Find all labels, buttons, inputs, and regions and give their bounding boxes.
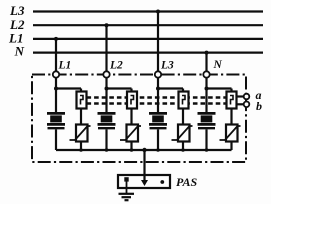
wire to earth bbox=[126, 181, 128, 194]
svg-text:L3: L3 bbox=[160, 59, 174, 71]
wire earth tap bbox=[143, 150, 145, 181]
disconnector box branch 4 bbox=[227, 92, 237, 109]
varistor RU1 (branch 1) bbox=[70, 125, 91, 142]
wire drop L2 bbox=[105, 25, 107, 74]
junction on L1 line bbox=[54, 37, 58, 41]
junction on L3 line bbox=[156, 10, 160, 14]
label PAS bbox=[176, 175, 197, 189]
wire drop L1 bbox=[55, 39, 57, 75]
node L3 terminal circle bbox=[155, 71, 161, 77]
wire drop L3 bbox=[157, 12, 159, 75]
spark gap F1 (branch 1) bbox=[47, 113, 65, 128]
node L1 terminal circle bbox=[53, 71, 59, 77]
wire line N bbox=[33, 51, 263, 53]
disconnector box branch 2 bbox=[127, 92, 137, 109]
spark gap F2 (branch 2) bbox=[98, 113, 116, 128]
ground symbol bbox=[119, 194, 135, 200]
varistor RU2 (branch 2) bbox=[120, 125, 141, 142]
junction dots on bottom bus bbox=[79, 148, 208, 152]
label node L2 bbox=[109, 59, 123, 71]
wire drop N bbox=[205, 53, 207, 75]
svg-text:L3: L3 bbox=[9, 3, 25, 18]
label N bbox=[14, 43, 25, 58]
svg-text:PAS: PAS bbox=[176, 175, 197, 189]
wire line L3 (top bus) bbox=[33, 10, 263, 12]
svg-text:b: b bbox=[256, 99, 262, 113]
disconnector box branch 1 bbox=[77, 92, 87, 109]
branch 4 wires bbox=[207, 78, 232, 151]
label L1 bbox=[8, 30, 23, 45]
svg-text:L2: L2 bbox=[109, 59, 123, 71]
spark gap F3 (branch 3) bbox=[149, 113, 167, 128]
wire line L2 bbox=[33, 24, 263, 26]
terminal dot on PAS bar bbox=[160, 180, 164, 184]
label b bbox=[256, 99, 262, 113]
junction branch 1 split bbox=[54, 87, 58, 91]
varistor RU4 (branch N) bbox=[220, 125, 241, 142]
varistor RU3 (branch 3) bbox=[172, 125, 193, 142]
spark gap F4 (branch N) bbox=[198, 113, 216, 128]
junction branch 4 split bbox=[205, 87, 209, 91]
contact a circle bbox=[244, 94, 250, 100]
branch 2 wires bbox=[107, 78, 132, 151]
svg-text:N: N bbox=[213, 59, 223, 71]
wire line L1 bbox=[33, 38, 263, 40]
junction branch 2 split bbox=[105, 87, 109, 91]
svg-text:N: N bbox=[14, 43, 25, 58]
label node L1 bbox=[58, 59, 72, 71]
label node L3 bbox=[160, 59, 174, 71]
wire stubs to signalling contacts bbox=[237, 97, 244, 105]
junction on L2 line bbox=[105, 23, 109, 27]
label a bbox=[256, 88, 262, 102]
junction on N line bbox=[205, 51, 209, 55]
arrow into PAS bar bbox=[141, 180, 148, 186]
junction branch 3 split bbox=[156, 87, 160, 91]
disconnector box branch 3 bbox=[179, 92, 189, 109]
PAS equipotential bonding bar bbox=[118, 175, 170, 188]
label L3 bbox=[9, 3, 25, 18]
branch 3 wires bbox=[158, 78, 183, 151]
node L2 terminal circle bbox=[103, 71, 109, 77]
terminal square on PAS bar bbox=[124, 177, 128, 181]
enclosure dash-dot box bbox=[32, 75, 246, 163]
node N terminal circle bbox=[203, 71, 209, 77]
contact b circle bbox=[244, 102, 250, 108]
label node N bbox=[213, 59, 223, 71]
wire bottom bus bbox=[56, 149, 232, 151]
branch 1 wires bbox=[56, 78, 81, 151]
mechanical linkage dashed lines to contacts bbox=[87, 98, 238, 104]
svg-text:L1: L1 bbox=[58, 59, 72, 71]
label L2 bbox=[9, 17, 25, 32]
